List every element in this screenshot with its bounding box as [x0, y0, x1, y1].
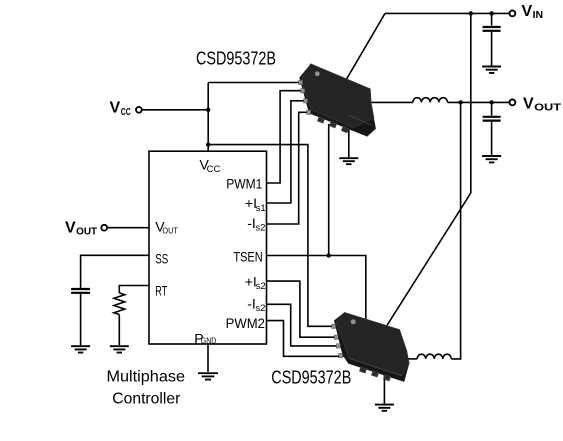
- svg-text:V: V: [110, 99, 121, 116]
- wire +Is2 to U2: [267, 281, 340, 337]
- ground R1: [110, 346, 129, 352]
- svg-text:s1: s1: [256, 203, 266, 214]
- wire -Is2 lower to U2: [267, 304, 342, 346]
- svg-text:IN: IN: [533, 9, 544, 21]
- power stage U1 (CSD95372B top): [299, 64, 376, 137]
- svg-text:CSD95372B: CSD95372B: [271, 367, 351, 387]
- resistor R1 (RT): [114, 293, 125, 315]
- ground U1: [339, 158, 358, 164]
- terminal VOUT right: [510, 100, 516, 106]
- wire VOUT terminal to box: [107, 227, 149, 229]
- wire RT: [119, 286, 149, 293]
- terminal VOUT left: [101, 225, 107, 231]
- svg-text:CSD95372B: CSD95372B: [196, 48, 276, 68]
- node VIN junction 2: [489, 11, 493, 15]
- wire U1 ground lead: [348, 129, 350, 157]
- wire VCC to U2: [208, 145, 336, 327]
- ground C2: [482, 156, 501, 162]
- wire VCC terminal to junction: [142, 109, 208, 111]
- wire VIN vertical drop: [470, 13, 472, 193]
- wire TSEN rail: [267, 256, 366, 320]
- terminal VCC: [136, 107, 142, 113]
- wire +Is1 to U1: [267, 101, 307, 203]
- wire TSEN to U1: [328, 124, 330, 256]
- inductor L1: [413, 98, 448, 103]
- svg-text:CC: CC: [207, 164, 221, 175]
- svg-text:V: V: [523, 95, 534, 112]
- svg-text:V: V: [522, 3, 533, 20]
- wire PWM2 to U2: [267, 321, 344, 357]
- inductor L2: [417, 354, 451, 359]
- ground U2: [375, 405, 394, 411]
- node VCC junction 1: [206, 108, 210, 112]
- wire PGND to ground: [207, 344, 209, 372]
- wire VCC to U1: [208, 82, 302, 84]
- wire U1 output to inductor: [371, 101, 413, 103]
- svg-text:OUT: OUT: [534, 102, 562, 114]
- svg-text:PWM1: PWM1: [226, 176, 262, 192]
- wire U2 output to inductor: [404, 358, 417, 360]
- svg-text:s2: s2: [255, 303, 265, 314]
- svg-text:Controller: Controller: [112, 390, 181, 407]
- ground C3: [71, 346, 90, 352]
- node VOUT junction 1: [458, 100, 462, 104]
- wire -Is2 upper to U1: [267, 112, 310, 224]
- svg-text:PWM2: PWM2: [226, 315, 266, 331]
- wire VIN horizontal top rail: [385, 12, 509, 14]
- ground C1: [482, 67, 501, 73]
- capacitor C3 (SS): [71, 289, 90, 293]
- svg-text:OUT: OUT: [162, 226, 178, 235]
- node VCC junction 2: [206, 142, 210, 146]
- wire VCC vertical: [207, 83, 209, 152]
- svg-text:V: V: [65, 219, 76, 236]
- capacitor C2 (VOUT): [483, 102, 501, 155]
- node VIN junction 1: [469, 11, 473, 15]
- svg-text:s2: s2: [256, 281, 266, 292]
- node VOUT junction 2: [489, 100, 493, 104]
- capacitor C1 (VIN): [483, 13, 501, 65]
- wire U2 ground lead: [383, 375, 385, 404]
- wire VOUT rail: [448, 101, 510, 103]
- wire VIN diagonal to U1: [346, 13, 385, 79]
- ground PGND: [198, 373, 218, 379]
- wire R1 to ground: [118, 315, 120, 346]
- wire SS: [81, 255, 149, 288]
- svg-text:SS: SS: [155, 251, 168, 267]
- wire VOUT vertical to phase 2 inductor: [451, 102, 460, 359]
- svg-text:OUT: OUT: [76, 226, 98, 238]
- svg-text:RT: RT: [155, 283, 167, 299]
- svg-text:s2: s2: [255, 223, 265, 234]
- terminal VIN: [510, 11, 516, 17]
- svg-text:CC: CC: [121, 106, 131, 118]
- svg-text:Multiphase: Multiphase: [107, 368, 186, 385]
- power stage U2 (CSD95372B bottom): [332, 312, 410, 381]
- wire PWM1 to U1: [267, 91, 305, 183]
- controller box: [149, 151, 267, 344]
- wire VIN diagonal to U2: [386, 193, 471, 327]
- svg-text:TSEN: TSEN: [233, 248, 262, 264]
- node TSEN junction: [327, 253, 331, 257]
- wire C3 to ground: [80, 294, 82, 345]
